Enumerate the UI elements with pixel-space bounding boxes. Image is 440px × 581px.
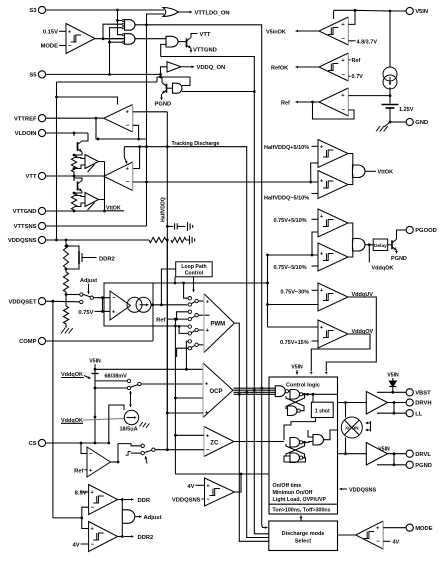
svg-text:VddqOK: VddqOK (372, 266, 394, 272)
wire CU3 feedback (313, 102, 355, 119)
wire CE out route to ctrl box (325, 297, 376, 375)
comparator ZC (204, 427, 234, 457)
comparator OCP (203, 363, 233, 418)
svg-text:+: + (341, 22, 345, 28)
wire sw feed 333 bracket (178, 325, 188, 333)
wire A7 out to delay (365, 243, 373, 246)
wire U8 out DDR (118, 498, 134, 501)
svg-text:VDDQ_ON: VDDQ_ON (197, 65, 226, 71)
wire OCP in4 (166, 240, 203, 450)
svg-text:PGND: PGND (155, 102, 172, 108)
and gate A5 adjust (122, 510, 135, 524)
buffer B1 VDDQ_ON (167, 62, 181, 72)
wire A5 out arrow (136, 515, 142, 518)
svg-text:V5IN: V5IN (387, 373, 399, 379)
wire Ref label (156, 318, 188, 324)
wire COMP to U6 output box (152, 326, 154, 341)
wire CA out to A6 (348, 154, 353, 169)
and gate A4 mirrored (173, 83, 182, 93)
svg-text:DDR2: DDR2 (99, 256, 115, 262)
label V5IN vbst (387, 373, 399, 379)
wire U2 plus input from HalfVDDQ rail (133, 111, 168, 113)
comparator U9 4V (89, 522, 118, 552)
label 4V (73, 543, 89, 549)
label V5IN drvl (378, 446, 390, 452)
wire V5IN stub (333, 10, 335, 19)
wire LL (377, 403, 406, 415)
wire A9 out (324, 430, 338, 440)
net label PGND q2 (155, 102, 172, 108)
svg-text:+: + (320, 179, 324, 185)
wire A1 in3 from S5 (108, 28, 122, 76)
pin S3 (29, 6, 45, 14)
svg-text:−: − (91, 542, 95, 548)
svg-text:+: + (126, 109, 130, 115)
svg-text:−: − (206, 448, 210, 454)
wire PWM out rail R4 (234, 323, 239, 537)
wire A1 in2 from U1 (103, 24, 122, 39)
and gate A3 (166, 36, 178, 47)
label 0.15V (43, 30, 66, 36)
wire VLDOIN (46, 132, 88, 136)
pin COMP (19, 337, 46, 345)
and gate A7 pgood (353, 239, 366, 252)
comparator CU2 Ref OK (319, 53, 349, 81)
svg-text:DRVH: DRVH (415, 401, 431, 407)
wire rail x95 down (94, 381, 97, 444)
net label VTTGND (193, 47, 217, 53)
svg-text:+: + (320, 288, 324, 294)
switch bank right contacts (195, 299, 198, 346)
wire CD plus in (266, 254, 318, 257)
svg-text:−: − (126, 179, 130, 185)
wire VTT to Q3 emitter (73, 172, 75, 181)
label HalfVDDQ+5/10% (264, 145, 318, 151)
wire left rail x52.9 VDDQSET sense (52, 300, 55, 518)
svg-text:VDDQSNS: VDDQSNS (349, 487, 377, 493)
label 0.75V-5/10% (274, 265, 319, 271)
net label DDR (138, 498, 151, 504)
ground G3 hatch (61, 324, 73, 334)
resistor R_sense1 (71, 154, 76, 172)
svg-text:+: + (341, 93, 345, 99)
wire latch down (284, 418, 316, 441)
op-amp U3 VTT regulator (104, 162, 133, 191)
svg-text:+: + (90, 490, 94, 496)
comparator CD 0.75V-5 (318, 243, 348, 271)
svg-text:−: − (112, 296, 116, 302)
wire CF out route to ctrl box (310, 334, 370, 375)
label VddqOK 2 (61, 418, 83, 424)
net label Ref out (281, 100, 290, 106)
svg-text:Control: Control (185, 271, 204, 277)
nand gate N2 (288, 406, 301, 416)
svg-text:−: − (206, 497, 210, 503)
wire sw out1 to PWM (198, 300, 204, 302)
wire HalfVDDQ rail (166, 112, 169, 413)
svg-text:PGND: PGND (391, 256, 407, 262)
label VDDQSNS arrow (340, 487, 377, 493)
svg-text:−: − (68, 43, 72, 49)
wire VDDQSNS (46, 239, 169, 242)
wire loop box left leg (161, 269, 175, 305)
resistor R1 divider (149, 237, 166, 242)
svg-text:MODE: MODE (41, 44, 59, 50)
comparator PWM (204, 294, 235, 353)
svg-text:HalfVDDQ+5/10%: HalfVDDQ+5/10% (264, 145, 309, 151)
svg-text:−: − (91, 505, 95, 511)
svg-text:0.15V: 0.15V (43, 30, 58, 36)
wire N3-N4 cross (286, 442, 305, 457)
wire B1 output arrow (181, 65, 194, 68)
svg-text:Ref: Ref (352, 58, 361, 64)
wire Q7 collector to PGOOD (397, 230, 407, 239)
wire CU1 plus feed (348, 10, 355, 24)
op-amp CU3 ref buffer (319, 88, 349, 116)
svg-text:1.25V: 1.25V (399, 107, 414, 113)
wire S2 to OCP plus (141, 383, 203, 385)
label HalfVDDQ vertical (161, 197, 167, 222)
wire rail R5 0.75V (266, 255, 269, 327)
label 0.7V (348, 74, 363, 80)
wire CU1 out V5inOK (296, 30, 319, 33)
svg-text:S3: S3 (29, 8, 37, 14)
wire CF plus in (268, 326, 319, 328)
wire CM out (338, 534, 356, 536)
label HalfVDDQ-5/10% (264, 194, 318, 202)
wire OR in2 rail x146.5 (147, 14, 165, 226)
wire R4 into discharge box (239, 538, 268, 542)
wire A5 in1 (121, 500, 123, 510)
switch blades (191, 302, 195, 348)
pin GND (406, 118, 428, 126)
svg-text:VBST: VBST (415, 391, 431, 397)
net label VddqOV (352, 329, 374, 335)
svg-text:+: + (126, 167, 130, 173)
label 0.75V+15% (280, 340, 318, 346)
pin DRVL (406, 450, 431, 458)
and gate A6 VttOK (353, 165, 366, 178)
svg-text:On/Off time: On/Off time (273, 483, 302, 489)
wire tracking discharge to rail R3 (124, 147, 246, 534)
net label VttOK (378, 170, 394, 176)
label 1.25V (399, 107, 414, 113)
label Adjust switch (80, 278, 97, 294)
wire CU3 out Ref (296, 101, 319, 104)
svg-text:COMP: COMP (19, 339, 37, 345)
label 4.8/3.7V (348, 39, 377, 45)
resistor R2 divider (171, 237, 186, 242)
svg-text:+: + (112, 310, 116, 316)
wire 1shot feed (312, 393, 315, 402)
diode D1 (389, 378, 396, 394)
wire ZC in1 (175, 434, 204, 436)
wire R2 into discharge box (254, 530, 268, 534)
svg-text:+: + (206, 328, 210, 334)
net label RefOK (271, 65, 288, 71)
wire loop box top stub (174, 277, 176, 283)
svg-text:−: − (341, 73, 345, 79)
wire CS2 feed (107, 405, 124, 444)
wire left rail x56.5 (55, 82, 58, 241)
label Control logic (286, 382, 320, 388)
comparator CA HalfVDDQ+ (318, 140, 348, 168)
svg-text:VTTLDO_ON: VTTLDO_ON (195, 10, 230, 16)
wire y77 to A4 top input (156, 77, 158, 82)
comparator U1 S3/MODE threshold (66, 24, 95, 54)
svg-text:GND: GND (415, 120, 428, 126)
wire R2 to ground (186, 239, 190, 241)
wire CB plus in (311, 181, 318, 183)
label Ref cu2 (348, 58, 360, 64)
pin VTTGND (13, 207, 46, 215)
wire rail R1 from A1 output (135, 23, 262, 521)
svg-text:VTTREF: VTTREF (14, 116, 37, 122)
comparator U8 8.5V (89, 485, 118, 515)
wire U4 out (99, 161, 105, 163)
svg-text:Ref: Ref (281, 100, 290, 106)
block Discharge mode Select (269, 521, 338, 551)
svg-text:DDR: DDR (138, 498, 151, 504)
svg-text:DDR2: DDR2 (138, 535, 154, 541)
svg-text:−: − (126, 123, 130, 129)
switch S1a contact (80, 293, 83, 296)
svg-text:V5IN: V5IN (291, 365, 303, 371)
net label DDR2 (138, 535, 154, 541)
wire U3 minus long sense line (133, 181, 312, 184)
wire sw feed 311 bracket (177, 312, 189, 319)
wire U9 plus (82, 518, 89, 529)
wire xcon to driver1 (344, 401, 347, 417)
wire xcon to driver2 (344, 438, 347, 456)
xcon circle (341, 417, 362, 438)
and gate A2 (122, 34, 135, 45)
nand gate N3 (290, 438, 303, 448)
comparator CB HalfVDDQ- (318, 171, 348, 199)
comparator CC 0.75V+5 (318, 209, 348, 237)
block Delay (373, 239, 388, 251)
svg-text:V5IN: V5IN (415, 9, 428, 15)
svg-text:VTT: VTT (26, 174, 37, 180)
ground G2 rotated (190, 236, 195, 245)
wire tracking arrow into U3 plus (124, 145, 141, 168)
wire U2 minus feedback (96, 118, 147, 140)
svg-text:+: + (320, 214, 324, 220)
wire A4 out to Q2 base (167, 87, 173, 89)
capacitor C1 (167, 223, 185, 229)
wire Q1 emitter arrow (190, 49, 193, 53)
svg-text:−: − (341, 108, 345, 114)
wire Q7 emitter arrow (395, 250, 398, 253)
svg-text:HalfVDDQ−5/10%: HalfVDDQ−5/10% (264, 195, 309, 201)
switch S3z blade (144, 450, 152, 452)
wire divider node to switch (65, 292, 80, 296)
wire sw out2 into PWM (198, 314, 209, 316)
wire N3 to A9 (303, 441, 313, 444)
label V5IN ctrl (291, 365, 303, 375)
svg-text:Loop Path: Loop Path (181, 264, 206, 270)
svg-text:4V: 4V (73, 543, 80, 549)
svg-text:OCP: OCP (210, 389, 223, 395)
wire discharge up arrow (300, 516, 303, 522)
wire y370 to OCP (94, 368, 203, 371)
net label VttOK small (106, 206, 124, 212)
label OnOff text (273, 483, 327, 503)
wire S3 to OR gate (46, 9, 164, 12)
transistor Q7 PGOOD (392, 239, 397, 250)
label 0.75V+5/10% (274, 218, 319, 224)
wire loop box arrow to switches (192, 277, 195, 292)
svg-text:0.75V: 0.75V (78, 310, 93, 316)
svg-text:+: + (341, 58, 345, 64)
svg-text:HalfVDDQ: HalfVDDQ (161, 197, 167, 222)
wire V5IN rail to CS3 (389, 11, 391, 67)
wire 0.75V line to comparators (104, 282, 269, 285)
wire left rail to comparators (53, 517, 83, 520)
svg-text:4.8/3.7V: 4.8/3.7V (357, 39, 378, 45)
svg-text:VTT: VTT (200, 32, 211, 38)
wire 4V comp in (175, 473, 269, 476)
wire S3z to ZC (155, 448, 204, 451)
driver DR2 low side (366, 443, 387, 466)
label 68/38mV (105, 374, 128, 380)
wire VddqOK tap (368, 245, 370, 263)
wire CS2 arrows (129, 391, 132, 407)
svg-text:Ton>100ns, Toff>300ns: Ton>100ns, Toff>300ns (273, 508, 331, 514)
op-amp U6 error amp (110, 291, 131, 320)
wire sw feed 326 (186, 325, 189, 328)
svg-text:V5IN: V5IN (89, 359, 101, 365)
svg-text:S5: S5 (29, 73, 37, 79)
svg-text:VttOK: VttOK (378, 170, 394, 176)
svg-text:+: + (205, 410, 209, 416)
current source CS3 (383, 67, 397, 89)
svg-text:DRVL: DRVL (415, 452, 431, 458)
wire DRVL (388, 452, 407, 455)
comparator CU1 V5IN UVLO (319, 17, 349, 45)
label V5IN ocp (89, 359, 101, 370)
svg-text:VLDOIN: VLDOIN (15, 131, 37, 137)
switch S1 blade (83, 294, 91, 297)
switch bank left contacts (188, 297, 191, 350)
wire sw feed 348 (177, 348, 189, 357)
svg-text:VTTSNS: VTTSNS (14, 224, 37, 230)
pin MODE (406, 524, 433, 532)
label MODE (41, 44, 66, 50)
wire VTTSNS riser x146.5 (145, 145, 169, 148)
switch S1b contact (80, 300, 83, 303)
svg-text:+: + (320, 144, 324, 150)
label 18/5uA (120, 422, 150, 433)
svg-text:RefOK: RefOK (271, 65, 288, 71)
pin DRVH (406, 399, 431, 407)
wire y82 from left rail (57, 81, 158, 83)
pin VBST (406, 389, 431, 397)
svg-text:0.75V−30%: 0.75V−30% (281, 289, 310, 295)
svg-text:0.75V+15%: 0.75V+15% (280, 340, 309, 346)
svg-text:−: − (376, 539, 380, 545)
transistor Q3 VTT source FET (74, 133, 88, 155)
wire S5 riser to B1 (157, 67, 167, 79)
svg-text:CS: CS (28, 441, 36, 447)
wire ctrl to driver2 (338, 453, 367, 455)
pin V5IN (406, 7, 428, 15)
svg-text:VDDQSNS: VDDQSNS (8, 238, 37, 244)
wire battery to GND (389, 108, 406, 123)
wire ctrl to driver1 (338, 402, 367, 404)
svg-text:PGOOD: PGOOD (415, 228, 437, 234)
wire sw feed 341 (185, 341, 188, 370)
wire CU2 out RefOK (296, 66, 319, 69)
svg-text:−: − (341, 37, 345, 43)
wire C4V out (235, 474, 242, 492)
transistor Q1 VTT out (187, 38, 192, 49)
svg-text:Ref: Ref (74, 468, 83, 474)
switch S2 blade (131, 385, 138, 388)
svg-text:0.75V+5/10%: 0.75V+5/10% (274, 218, 307, 224)
wire U8 minus (82, 507, 89, 518)
svg-text:0.75V−5/10%: 0.75V−5/10% (274, 265, 307, 271)
wire REF minus from CS (81, 443, 87, 454)
svg-text:68/38mV: 68/38mV (105, 374, 128, 380)
and gate A1 (122, 19, 135, 30)
wire VTTGND (46, 210, 105, 213)
wire COMP (46, 340, 153, 342)
wire S3z arrow (145, 456, 148, 463)
nand gate N1 (290, 390, 303, 400)
wire delay to Q7 (388, 244, 392, 246)
block 1shot (311, 402, 333, 417)
wire Q1 collector to VTT (191, 34, 198, 38)
wire sw feed 298 bracket (182, 282, 188, 299)
svg-text:VDDQSET: VDDQSET (8, 299, 36, 305)
svg-text:V5inOK: V5inOK (266, 29, 286, 35)
wire REF out (111, 461, 119, 463)
driver DR1 high side (366, 392, 387, 415)
wire S3z feed2 (131, 452, 141, 454)
wire CC out to A7 (348, 223, 353, 242)
wire VBST (377, 391, 406, 393)
label Ref cs (74, 468, 87, 474)
wire CS (46, 442, 109, 445)
current source CS1 (127, 297, 151, 312)
wire A9 in1 (308, 430, 313, 437)
resistor R4 lower divider (63, 268, 68, 292)
wire y77b (161, 77, 191, 86)
wire OCP in3 (175, 397, 203, 399)
svg-text:−: − (89, 451, 93, 457)
pin PGND (406, 461, 432, 469)
switch S2 contacts (94, 379, 141, 390)
svg-text:1 shot: 1 shot (315, 409, 330, 415)
wire A3 out to Q1 base (178, 41, 187, 43)
resistor R_sense2 (71, 192, 76, 210)
svg-text:VTTGND: VTTGND (13, 209, 37, 215)
wire Q2 collector up (161, 77, 163, 83)
svg-text:Discharge mode: Discharge mode (282, 531, 325, 537)
label 4V c4v (187, 484, 204, 490)
wire CS1 out to switch bank (151, 303, 187, 306)
current source CS2 18/5uA (124, 410, 138, 424)
wire R3 into discharge box (247, 534, 269, 538)
wire S5 (46, 73, 162, 76)
wire S3z feed1 (118, 444, 141, 446)
ground G1 rotated (188, 222, 193, 231)
comparator C4V discharge (205, 478, 235, 506)
label VDDQSNS c4v (172, 497, 205, 503)
comparator REF cs (87, 447, 111, 477)
pin LL (406, 410, 423, 418)
